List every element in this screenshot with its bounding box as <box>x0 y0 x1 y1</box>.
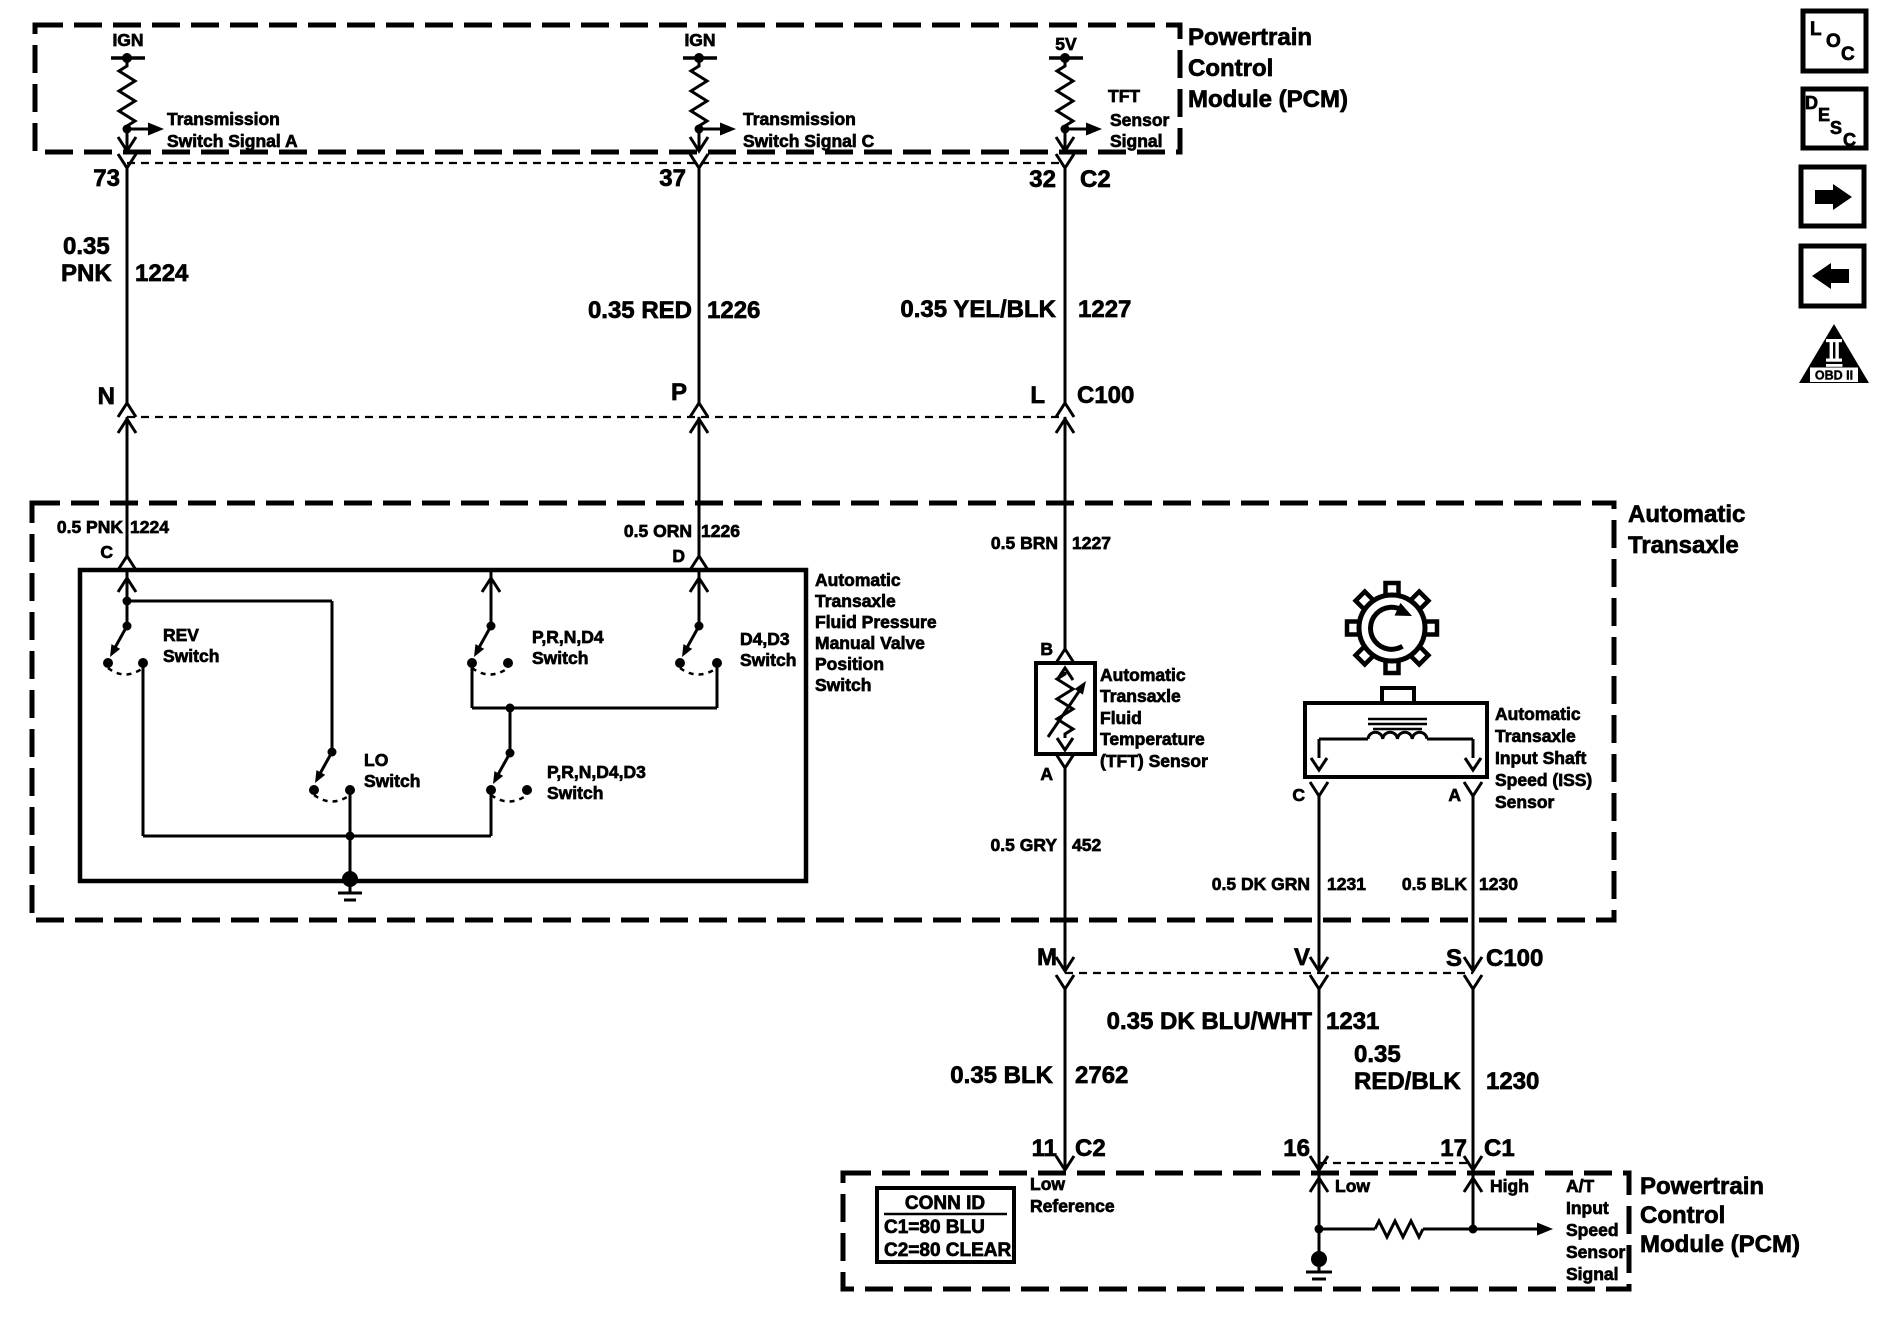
svg-text:452: 452 <box>1072 835 1101 855</box>
C100 pin M <box>1056 957 1074 971</box>
svg-text:Manual Valve: Manual Valve <box>815 633 925 653</box>
svg-text:High: High <box>1490 1176 1529 1196</box>
svg-text:D: D <box>672 546 685 566</box>
pin C terminal ISS <box>1310 782 1328 796</box>
svg-text:C1: C1 <box>1484 1135 1515 1162</box>
svg-text:IGN: IGN <box>112 30 143 50</box>
svg-text:1224: 1224 <box>130 517 169 537</box>
icon arrow right <box>1801 167 1864 226</box>
svg-text:B: B <box>1040 639 1053 659</box>
wire 1227 PCM segment <box>1064 168 1067 403</box>
svg-text:C: C <box>100 542 113 562</box>
svg-text:Speed: Speed <box>1566 1220 1619 1240</box>
wire resistor to high junction <box>1423 1228 1537 1231</box>
wire 1226 to transaxle <box>698 417 701 556</box>
connector C100 row 1 <box>127 416 1065 418</box>
wire to pin 32 <box>1064 129 1067 151</box>
wire 452 TFT to C100 <box>1064 768 1067 971</box>
svg-text:Transaxle: Transaxle <box>1495 726 1576 746</box>
switch P,R,N,D4,D3 <box>509 708 512 753</box>
wire ISS coil right lead <box>1427 738 1473 741</box>
wire ground bus <box>143 835 491 838</box>
svg-text:A: A <box>1040 764 1053 784</box>
wire 1231 ISS to C100 <box>1318 796 1321 971</box>
svg-text:Signal: Signal <box>1566 1264 1619 1284</box>
gear icon ISS <box>1347 583 1437 673</box>
C100 pin N <box>118 403 136 417</box>
svg-text:P: P <box>671 379 687 406</box>
svg-text:Switch: Switch <box>364 771 420 791</box>
wire pin C into box <box>118 578 136 592</box>
connector row C2 (PCM top) <box>127 162 1065 164</box>
resistor pull-up C <box>691 62 707 128</box>
svg-text:0.35: 0.35 <box>63 233 110 260</box>
icon arrow left <box>1801 246 1864 306</box>
svg-text:Module (PCM): Module (PCM) <box>1188 86 1348 113</box>
connector C1 dashed <box>1319 1162 1473 1164</box>
svg-text:M: M <box>1037 944 1057 971</box>
svg-text:1226: 1226 <box>701 521 740 541</box>
junction signal C <box>695 125 704 134</box>
pin A terminal ISS <box>1464 782 1482 796</box>
svg-text:Temperature: Temperature <box>1100 729 1205 749</box>
svg-text:Automatic: Automatic <box>815 570 901 590</box>
wire 1227 to TFT sensor <box>1064 417 1067 649</box>
junction signal A <box>123 125 132 134</box>
svg-text:C: C <box>1843 130 1856 150</box>
wire ISS coil left lead <box>1319 738 1368 741</box>
svg-text:A/T: A/T <box>1566 1176 1595 1196</box>
svg-text:P,R,N,D4: P,R,N,D4 <box>532 627 604 647</box>
svg-text:S: S <box>1446 945 1462 972</box>
table CONN ID <box>877 1188 1014 1262</box>
svg-text:Transaxle: Transaxle <box>815 591 896 611</box>
svg-text:Low: Low <box>1335 1176 1370 1196</box>
switch LO <box>331 601 334 752</box>
svg-text:Switch: Switch <box>740 650 796 670</box>
wire REV contact to bus <box>142 663 145 836</box>
wire mid bus <box>472 707 717 710</box>
svg-text:OBD II: OBD II <box>1815 369 1853 383</box>
svg-text:1226: 1226 <box>707 297 760 324</box>
node REV/LO junction <box>123 597 132 606</box>
ISS sensor box <box>1305 703 1487 777</box>
svg-text:IGN: IGN <box>684 30 715 50</box>
wire LO contact to bus <box>349 790 352 836</box>
pin B terminal TFT <box>1056 649 1074 663</box>
wire low to resistor <box>1319 1228 1375 1231</box>
pin 17 terminal <box>1464 1156 1482 1170</box>
svg-text:C1=80 BLU: C1=80 BLU <box>884 1217 985 1238</box>
svg-text:1231: 1231 <box>1326 1008 1379 1035</box>
svg-text:Switch Signal C: Switch Signal C <box>743 131 875 151</box>
svg-text:11: 11 <box>1032 1135 1057 1162</box>
wire junction to LO branch <box>127 600 332 603</box>
svg-text:TFT: TFT <box>1108 86 1140 106</box>
svg-text:0.5 GRY: 0.5 GRY <box>991 835 1058 855</box>
svg-text:Reference: Reference <box>1030 1196 1115 1216</box>
svg-text:A: A <box>1448 785 1461 805</box>
icon DESC <box>1803 89 1866 148</box>
svg-text:O: O <box>1826 31 1841 52</box>
switch P,R,N,D4 <box>487 622 496 631</box>
wire IGN to resistor A <box>126 58 129 63</box>
pin 11 terminal <box>1056 1156 1074 1170</box>
svg-text:Switch: Switch <box>815 675 871 695</box>
svg-text:Transaxle: Transaxle <box>1628 532 1739 559</box>
svg-text:PNK: PNK <box>61 260 112 287</box>
svg-text:0.35: 0.35 <box>1354 1041 1401 1068</box>
svg-text:1231: 1231 <box>1327 874 1366 894</box>
node bus/ground junction <box>346 832 355 841</box>
svg-text:32: 32 <box>1029 166 1056 193</box>
svg-text:C2=80 CLEAR: C2=80 CLEAR <box>884 1240 1012 1261</box>
C100 pin V <box>1310 957 1328 971</box>
svg-text:Sensor: Sensor <box>1110 110 1170 130</box>
ground PCM low reference <box>1318 1229 1321 1252</box>
svg-text:0.5 BRN: 0.5 BRN <box>991 533 1058 553</box>
svg-text:C: C <box>1841 44 1855 65</box>
svg-text:Switch: Switch <box>547 783 603 803</box>
pin 16 terminal <box>1310 1156 1328 1170</box>
node mid bus junction <box>506 704 515 713</box>
svg-text:Control: Control <box>1188 55 1273 82</box>
svg-text:S: S <box>1830 118 1842 138</box>
svg-text:CONN ID: CONN ID <box>905 1193 985 1214</box>
svg-text:Automatic: Automatic <box>1100 665 1186 685</box>
ground switch box <box>349 836 352 874</box>
svg-text:P,R,N,D4,D3: P,R,N,D4,D3 <box>547 762 646 782</box>
wire Low input <box>1310 1178 1328 1192</box>
svg-text:E: E <box>1818 105 1830 125</box>
icon LOC <box>1803 11 1866 71</box>
svg-text:Transmission: Transmission <box>743 109 856 129</box>
svg-text:Sensor: Sensor <box>1495 792 1555 812</box>
svg-text:0.35 RED: 0.35 RED <box>588 297 692 324</box>
svg-text:C: C <box>1292 785 1305 805</box>
svg-text:V: V <box>1294 944 1310 971</box>
PCM (top) dashed enclosure <box>35 25 1180 152</box>
pin 37 terminal <box>690 154 708 168</box>
switch D4,D3 <box>695 622 704 631</box>
svg-text:Automatic: Automatic <box>1628 501 1745 528</box>
pin D terminal <box>690 556 708 570</box>
resistor pull-up TFT <box>1057 62 1073 128</box>
node high junction <box>1469 1225 1478 1234</box>
svg-text:0.35 DK BLU/WHT: 0.35 DK BLU/WHT <box>1107 1008 1313 1035</box>
svg-text:17: 17 <box>1440 1135 1467 1162</box>
svg-text:C100: C100 <box>1077 382 1134 409</box>
svg-text:C2: C2 <box>1080 166 1111 193</box>
svg-text:0.35 BLK: 0.35 BLK <box>950 1062 1053 1089</box>
svg-text:Input: Input <box>1566 1198 1609 1218</box>
wire 1226 PCM segment <box>698 168 701 403</box>
svg-text:Fluid: Fluid <box>1100 708 1142 728</box>
C100 pin P <box>690 403 708 417</box>
svg-text:(TFT) Sensor: (TFT) Sensor <box>1100 751 1208 771</box>
manual valve position switch box <box>80 570 806 881</box>
svg-text:Module (PCM): Module (PCM) <box>1640 1231 1800 1258</box>
svg-text:0.5 PNK: 0.5 PNK <box>57 517 123 537</box>
svg-text:Transmission: Transmission <box>167 109 280 129</box>
wire 1224 PCM segment <box>126 168 129 403</box>
pin 73 terminal <box>118 154 136 168</box>
svg-text:L: L <box>1810 19 1822 40</box>
wire 2762 to PCM <box>1064 989 1067 1170</box>
switch REV <box>126 601 129 626</box>
Automatic Transaxle dashed enclosure <box>32 503 1614 920</box>
wire to pin 37 <box>698 129 701 151</box>
node low junction <box>1315 1225 1324 1234</box>
svg-text:Position: Position <box>815 654 884 674</box>
svg-text:1224: 1224 <box>135 260 189 287</box>
svg-text:D: D <box>1805 93 1818 113</box>
svg-text:0.5 ORN: 0.5 ORN <box>624 521 692 541</box>
wire D4,D3 contact down <box>716 663 719 708</box>
svg-text:Fluid Pressure: Fluid Pressure <box>815 612 937 632</box>
svg-text:0.35 YEL/BLK: 0.35 YEL/BLK <box>900 296 1056 323</box>
svg-text:2762: 2762 <box>1075 1062 1128 1089</box>
svg-text:1227: 1227 <box>1078 296 1131 323</box>
wire P,R,N,D4 entry <box>482 578 500 592</box>
arrow Transmission Switch Signal A <box>127 128 148 131</box>
wire 1230 ISS to C100 <box>1472 796 1475 971</box>
svg-text:C2: C2 <box>1075 1135 1106 1162</box>
svg-text:0.5 BLK: 0.5 BLK <box>1402 874 1468 894</box>
connector C100 row 2 <box>1065 972 1473 974</box>
svg-text:Automatic: Automatic <box>1495 704 1581 724</box>
svg-text:Powertrain: Powertrain <box>1188 24 1312 51</box>
ISS sensor mount <box>1382 688 1414 703</box>
svg-text:1230: 1230 <box>1486 1068 1539 1095</box>
svg-text:Signal: Signal <box>1110 131 1163 151</box>
svg-text:Control: Control <box>1640 1202 1725 1229</box>
svg-text:Sensor: Sensor <box>1566 1242 1626 1262</box>
svg-text:Switch: Switch <box>163 646 219 666</box>
wire P,R,N,D4 contact down <box>471 663 474 708</box>
svg-text:5V: 5V <box>1055 34 1077 54</box>
svg-text:Transaxle: Transaxle <box>1100 686 1181 706</box>
wire 5V to resistor <box>1064 58 1067 63</box>
pin C terminal <box>118 556 136 570</box>
inductor ISS coil <box>1368 732 1427 739</box>
ISS core <box>1368 718 1427 721</box>
pin A terminal TFT <box>1056 754 1074 768</box>
svg-text:Switch Signal A: Switch Signal A <box>167 131 298 151</box>
C100 pin L <box>1056 403 1074 417</box>
PCM (bottom) dashed enclosure <box>843 1173 1629 1289</box>
svg-text:73: 73 <box>93 165 120 192</box>
svg-text:C100: C100 <box>1486 945 1543 972</box>
resistor input speed <box>1375 1221 1423 1237</box>
svg-text:D4,D3: D4,D3 <box>740 629 790 649</box>
svg-text:Low: Low <box>1030 1174 1065 1194</box>
icon OBD II <box>1799 324 1869 383</box>
C100 pin S <box>1464 957 1482 971</box>
arrow A/T Input Speed Sensor Signal <box>1537 1223 1553 1236</box>
svg-text:Speed (ISS): Speed (ISS) <box>1495 770 1592 790</box>
svg-text:LO: LO <box>364 750 388 770</box>
svg-text:37: 37 <box>659 165 686 192</box>
wire High input <box>1464 1178 1482 1192</box>
svg-text:1230: 1230 <box>1479 874 1518 894</box>
svg-text:16: 16 <box>1283 1135 1310 1162</box>
wire 1231 to PCM <box>1318 989 1321 1170</box>
wire 1224 to transaxle <box>126 417 129 556</box>
pin 32 terminal <box>1056 154 1074 168</box>
svg-text:Input Shaft: Input Shaft <box>1495 748 1587 768</box>
TFT sensor box <box>1036 663 1095 754</box>
svg-text:1227: 1227 <box>1072 533 1111 553</box>
svg-text:REV: REV <box>163 625 199 645</box>
svg-text:N: N <box>98 383 115 410</box>
wire IGN to resistor C <box>698 58 701 63</box>
wire 1230 to PCM <box>1472 989 1475 1170</box>
svg-text:Powertrain: Powertrain <box>1640 1173 1764 1200</box>
arrow Transmission Switch Signal C <box>699 128 720 131</box>
thermistor TFT <box>1057 668 1073 680</box>
resistor pull-up A <box>119 62 135 128</box>
wire P,R,N,D4,D3 contact to bus <box>490 790 493 836</box>
svg-text:RED/BLK: RED/BLK <box>1354 1068 1461 1095</box>
junction TFT signal <box>1061 125 1070 134</box>
arrow TFT Sensor Signal <box>1065 128 1086 131</box>
svg-text:Switch: Switch <box>532 648 588 668</box>
wire pin D into box <box>690 578 708 592</box>
svg-text:L: L <box>1030 382 1045 409</box>
svg-text:0.5 DK GRN: 0.5 DK GRN <box>1212 874 1310 894</box>
wire to pin 73 <box>126 129 129 151</box>
